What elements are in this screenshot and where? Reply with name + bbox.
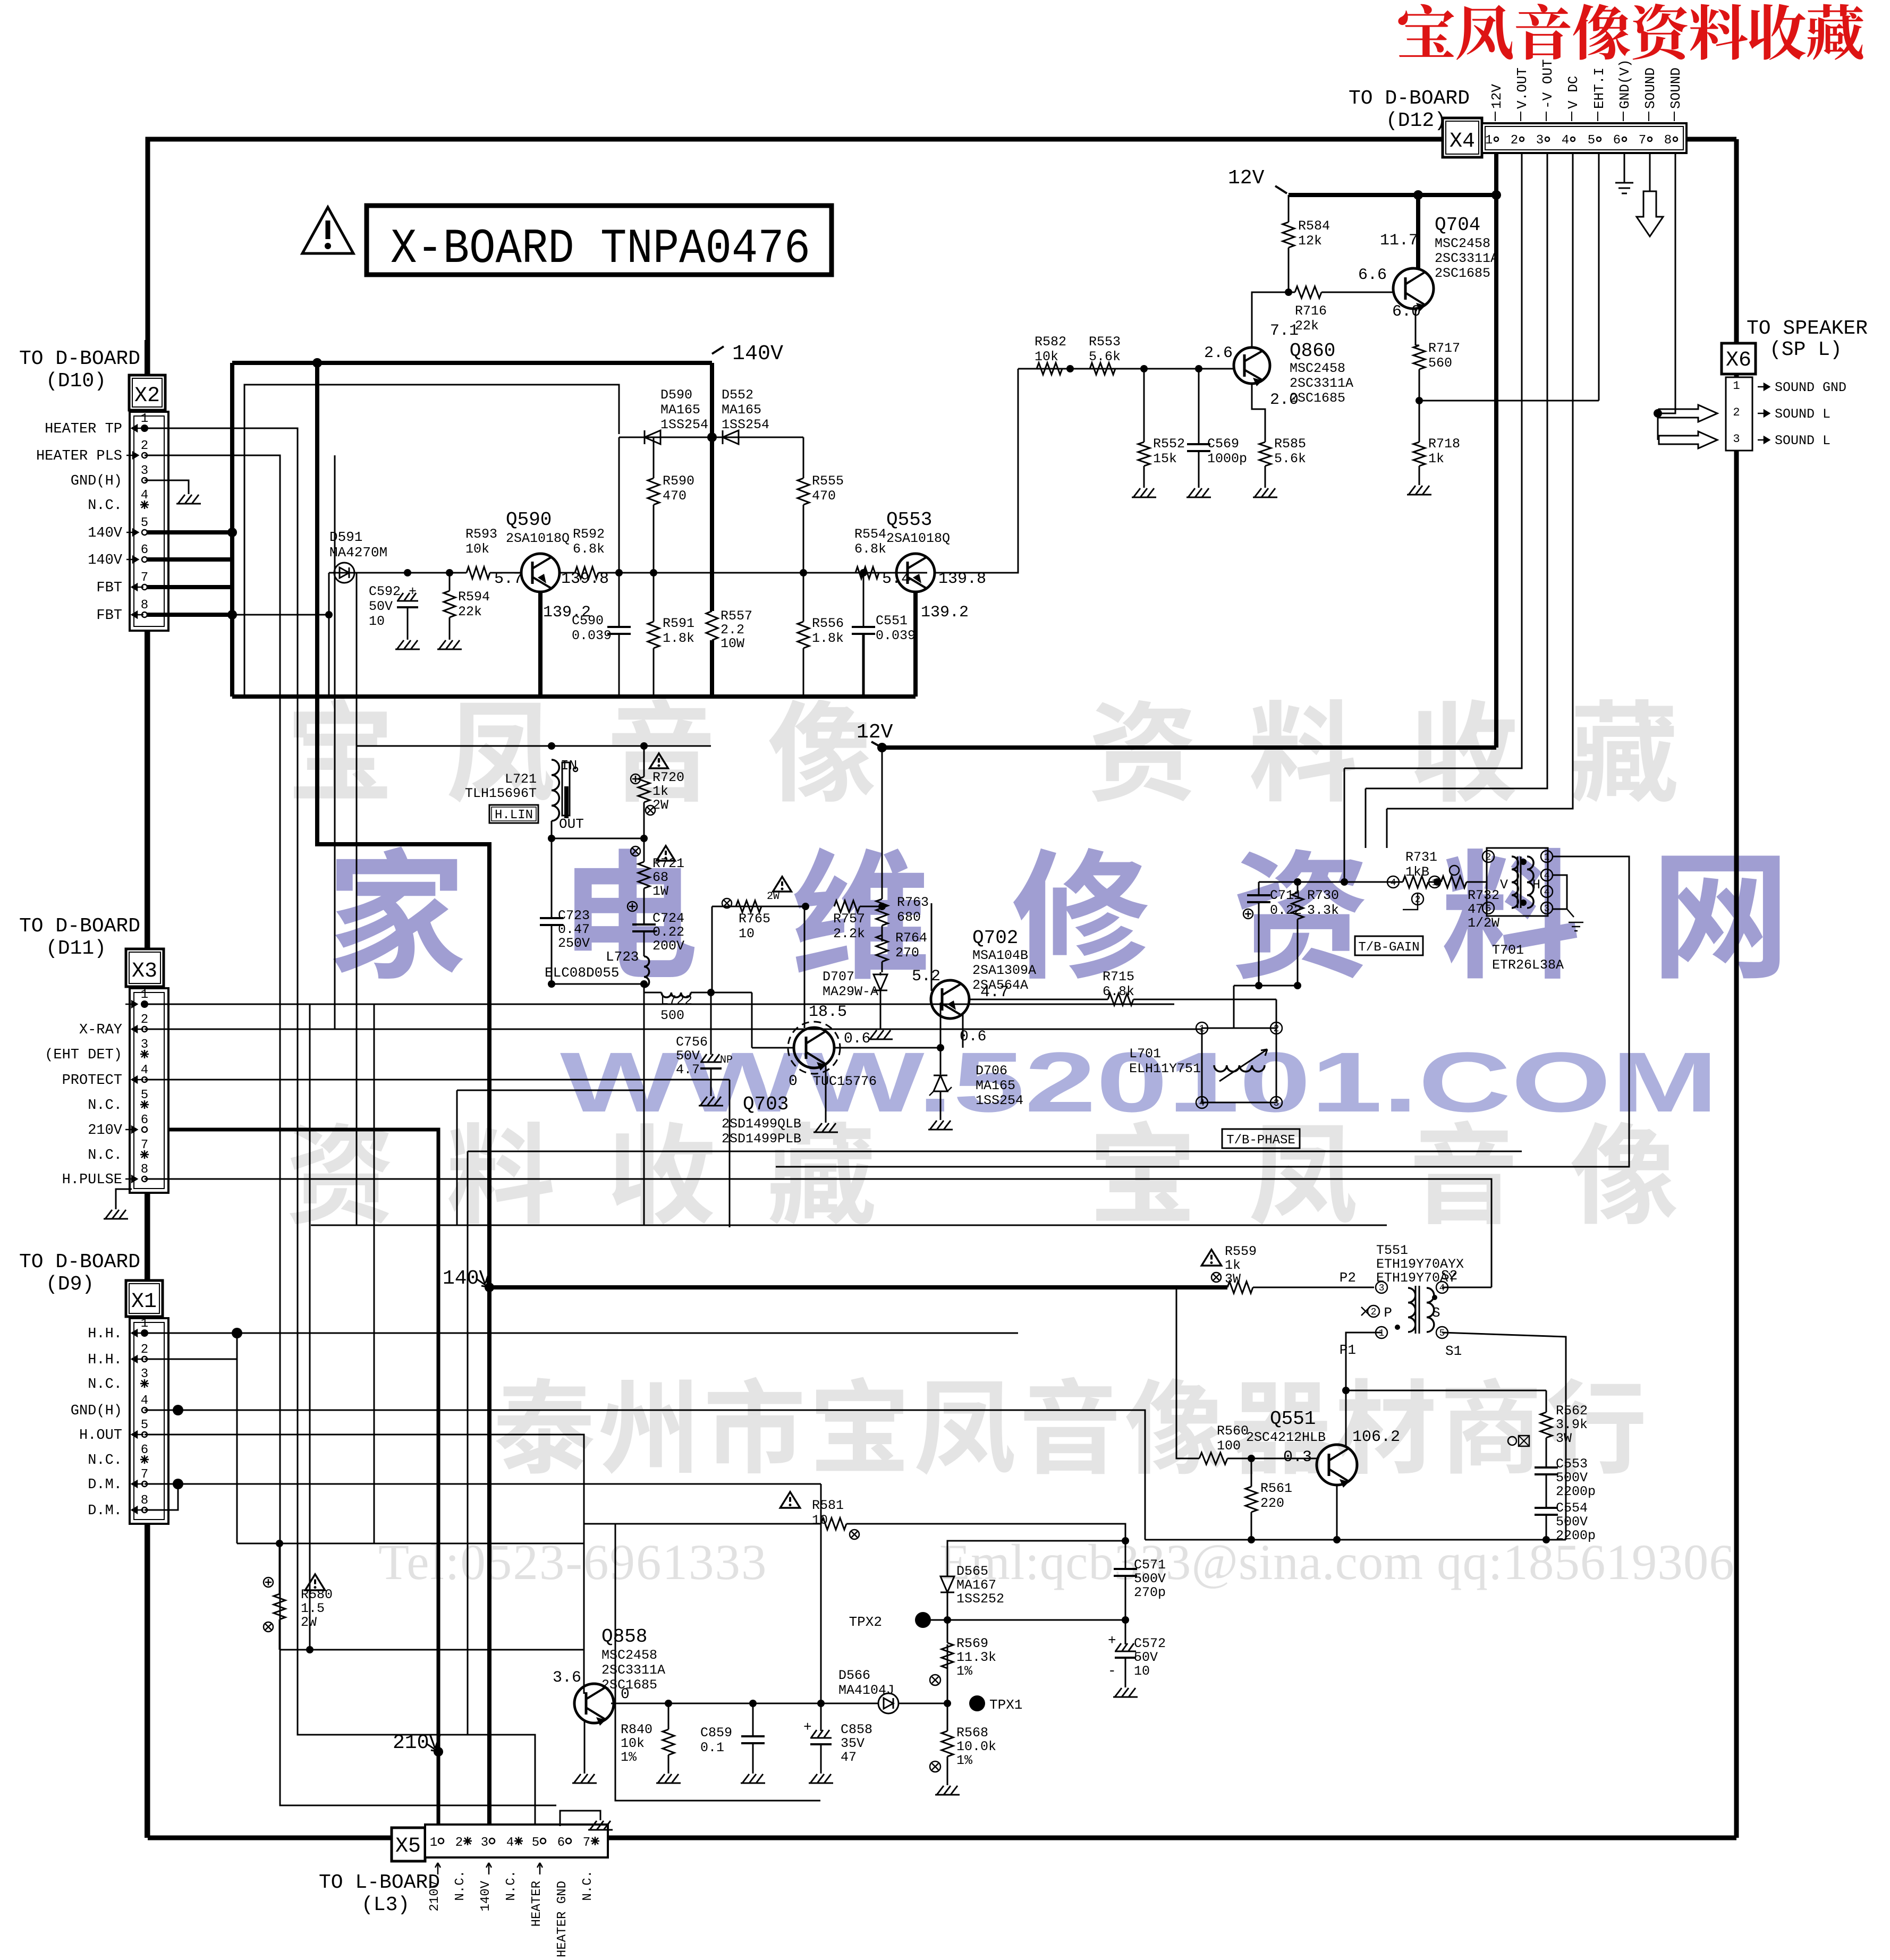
svg-text:C569: C569: [1207, 436, 1239, 452]
wire Q553 collector: [913, 592, 918, 697]
svg-text:D552: D552: [722, 387, 753, 403]
wire X1 pin8 D.M. tie: [145, 1484, 178, 1510]
resistor R560: [1199, 1453, 1227, 1464]
resistor R557 on 140V drop: [710, 363, 714, 611]
svg-text:EHT.I: EHT.I: [1591, 67, 1607, 109]
svg-text:6.6: 6.6: [1358, 266, 1387, 284]
wire Q703 block outline: [457, 1090, 644, 1091]
svg-text:18.5: 18.5: [809, 1003, 847, 1021]
wire 140V drop to lower distribution: [317, 363, 489, 1826]
resistor R591: [653, 573, 655, 622]
svg-text:R594: R594: [458, 589, 490, 605]
wire Q590 collector: [538, 592, 543, 697]
svg-text:0.47: 0.47: [558, 922, 590, 937]
svg-text:D707: D707: [823, 969, 854, 985]
svg-text:NP: NP: [720, 1054, 733, 1066]
transformer T551 secondary: [1427, 1288, 1434, 1332]
wire Q704 emitter: [1415, 309, 1417, 345]
svg-text:SOUND L: SOUND L: [1775, 406, 1830, 422]
svg-text:R582: R582: [1035, 334, 1066, 350]
T551 polarity dots: [1432, 1295, 1437, 1300]
svg-text:47: 47: [1468, 902, 1484, 917]
wire Q703 emitter ground: [825, 1065, 827, 1118]
board outline border: [148, 139, 1736, 529]
svg-text:500V: 500V: [1134, 1571, 1166, 1586]
connector X6 pin labels: [1758, 384, 1769, 390]
wire X2 pin8 FBT: [147, 613, 232, 617]
resistor R585: [1259, 442, 1271, 466]
ground R585: [1265, 466, 1266, 483]
diode D565: [940, 1576, 954, 1592]
wire X1 body to bottom border: [145, 1524, 149, 1838]
svg-text:2.2k: 2.2k: [833, 926, 865, 941]
board outline border left-lower: [146, 529, 150, 1838]
capacitor C551: [863, 573, 865, 627]
resistor R592: [560, 572, 575, 574]
connector X5 body: [425, 1825, 608, 1857]
warning R559: [1201, 1250, 1221, 1266]
ground Q703: [825, 1118, 827, 1123]
svg-text:3.6: 3.6: [553, 1669, 581, 1687]
svg-text:(SP L): (SP L): [1769, 338, 1842, 361]
wire EHT row extension: [1598, 397, 1600, 401]
svg-text:(D10): (D10): [46, 370, 106, 393]
svg-text:R568: R568: [956, 1725, 988, 1741]
connector X6 box: [1722, 343, 1756, 374]
wire X1 pin5 H.OUT: [145, 1435, 584, 1694]
svg-text:S2: S2: [1441, 1268, 1457, 1284]
svg-text:0.039: 0.039: [572, 628, 612, 643]
transformer T551 primary: [1408, 1288, 1416, 1332]
svg-text:R730: R730: [1307, 888, 1339, 903]
svg-text:R591: R591: [663, 616, 694, 631]
svg-text:HEATER TP: HEATER TP: [45, 421, 122, 437]
svg-text:2: 2: [455, 1836, 463, 1850]
title box X-BOARD TNPA0476: [367, 206, 832, 275]
svg-text:0.039: 0.039: [876, 628, 916, 643]
svg-text:8: 8: [1664, 133, 1672, 148]
svg-text:10k: 10k: [621, 1736, 645, 1751]
wire 140V riser from X2: [230, 363, 234, 697]
svg-text:6: 6: [557, 1836, 565, 1850]
warning triangle title: [302, 207, 353, 253]
svg-text:C592 +: C592 +: [369, 584, 417, 599]
wire TPX2 row: [931, 1619, 1125, 1621]
svg-text:2: 2: [141, 1013, 148, 1027]
svg-text:3W: 3W: [1556, 1431, 1572, 1446]
wire X2 body to X3: [145, 631, 149, 949]
svg-text:2: 2: [1371, 1307, 1377, 1318]
svg-text:1%: 1%: [621, 1750, 637, 1765]
wire R763 to node: [882, 926, 883, 941]
node 140V at diode row: [707, 432, 717, 442]
svg-text:R581: R581: [812, 1498, 844, 1513]
svg-text:TO D-BOARD: TO D-BOARD: [19, 915, 140, 938]
capacitor C590: [618, 573, 620, 627]
svg-text:R732: R732: [1468, 888, 1499, 903]
wire Q551 collector: [1345, 1390, 1347, 1447]
transistor Q860: [1234, 347, 1270, 384]
svg-text:11.3k: 11.3k: [956, 1650, 996, 1665]
svg-text:Q860: Q860: [1290, 340, 1335, 362]
svg-text:N.C.: N.C.: [88, 1453, 122, 1469]
svg-text:HEATER PLS: HEATER PLS: [36, 448, 122, 464]
svg-text:R557: R557: [721, 608, 752, 624]
warning R765: [773, 877, 792, 892]
svg-text:4: 4: [141, 1394, 148, 1408]
T551 pin2 unused: [1368, 1305, 1379, 1317]
svg-text:0.6: 0.6: [960, 1029, 986, 1045]
transistor Q704: [1393, 268, 1434, 309]
svg-text:0.1: 0.1: [700, 1740, 724, 1755]
capacitor C711: [1258, 882, 1260, 895]
watermark row5 gray company name: [496, 1378, 594, 1473]
svg-text:270p: 270p: [1134, 1585, 1166, 1600]
svg-text:2SD1499PLB: 2SD1499PLB: [722, 1131, 801, 1147]
svg-text:MA165: MA165: [976, 1078, 1015, 1093]
symbol R580 top: [264, 1577, 273, 1587]
svg-text:Q703: Q703: [743, 1093, 789, 1115]
svg-text:FBT: FBT: [96, 608, 122, 624]
svg-text:R721: R721: [652, 856, 684, 871]
svg-text:7: 7: [141, 1138, 148, 1152]
resistor R582: [1037, 363, 1062, 375]
svg-text:3: 3: [481, 1836, 488, 1850]
svg-text:MSC2458: MSC2458: [601, 1648, 657, 1663]
transistor Q702: [931, 980, 969, 1019]
svg-text:3: 3: [1544, 904, 1550, 914]
wire Q703 base row to D706 node: [834, 1047, 940, 1049]
warning R721: [657, 846, 675, 861]
T701 pin 1: [1541, 851, 1553, 862]
svg-text:-V OUT: -V OUT: [1540, 59, 1556, 109]
resistor R556: [803, 573, 804, 622]
svg-text:Q590: Q590: [506, 509, 552, 531]
svg-text:2: 2: [1733, 406, 1740, 419]
resistor R584: [1288, 195, 1290, 222]
capacitor C859: [752, 1703, 754, 1736]
wire Q551 block bottom bus: [1145, 1539, 1566, 1541]
svg-text:12V: 12V: [1228, 167, 1265, 190]
wire X2 pin2 HEATER PLS: [145, 455, 556, 1805]
svg-text:6: 6: [141, 1443, 148, 1457]
symbol R568: [930, 1761, 940, 1772]
wire 140V to R559: [489, 1285, 1227, 1289]
svg-text:5: 5: [1439, 1328, 1445, 1339]
T551 pin S1: [1436, 1327, 1448, 1338]
resistor R580: [279, 1543, 281, 1594]
svg-text:ELC08D055: ELC08D055: [545, 965, 619, 981]
symbol C711: [1243, 909, 1253, 919]
svg-text:TO D-BOARD: TO D-BOARD: [19, 1251, 140, 1274]
ground R552: [1143, 466, 1145, 483]
node TPX1: [969, 1695, 985, 1711]
svg-text:5.2: 5.2: [912, 968, 940, 986]
diode D590: [645, 430, 660, 444]
connector X6 body: [1726, 377, 1752, 451]
node 140V branch to T551: [485, 1283, 494, 1292]
svg-text:C859: C859: [700, 1725, 732, 1741]
wire R590 lower: [653, 505, 655, 573]
diode D706: [940, 1048, 942, 1074]
svg-text:2200p: 2200p: [1556, 1528, 1596, 1543]
svg-text:15k: 15k: [1153, 451, 1177, 466]
svg-text:P2: P2: [1340, 1270, 1356, 1286]
wire FBT to D591 branch: [232, 614, 329, 616]
svg-text:R840: R840: [621, 1722, 652, 1737]
T701 pin 5: [1482, 902, 1494, 914]
svg-text:D.M.: D.M.: [88, 1503, 122, 1519]
wire long horizontal V.OUT return: [468, 1151, 1522, 1152]
ground X5 heater gnd: [560, 1811, 600, 1826]
wire H.H. drop: [236, 1333, 238, 1543]
svg-text:470: 470: [663, 488, 686, 504]
warning R581: [780, 1492, 800, 1508]
capacitor C554: [1535, 1507, 1558, 1509]
svg-text:8: 8: [141, 1494, 148, 1508]
ground C592: [407, 607, 409, 635]
resistor R552: [1143, 369, 1145, 442]
svg-text:OUT: OUT: [559, 816, 584, 832]
svg-text:200V: 200V: [652, 938, 684, 954]
L701 pins: [1196, 1022, 1208, 1034]
svg-text:140V: 140V: [88, 553, 123, 569]
svg-text:MSC2458: MSC2458: [1435, 236, 1490, 251]
wire X2 pin6 140V: [147, 557, 232, 562]
svg-text:500V: 500V: [1556, 1470, 1588, 1486]
wire R765 row: [712, 906, 806, 907]
wire R717 to R718: [1419, 369, 1420, 442]
wire R757 to R764: [860, 906, 882, 907]
watermark row4 gray: [290, 1123, 391, 1224]
svg-text:2200p: 2200p: [1556, 1484, 1596, 1499]
wire T701 H mid: [1386, 809, 1388, 848]
label H.LIN boxed: [489, 805, 538, 823]
wire X2 pin5 140V: [147, 530, 232, 534]
svg-text:N.C.: N.C.: [88, 1098, 122, 1114]
svg-text:7.1: 7.1: [1270, 322, 1299, 340]
wire top block thin enclosure: [244, 385, 619, 694]
wire Q704 collector: [1416, 195, 1420, 269]
resistor R720: [643, 746, 645, 777]
symbol R581: [850, 1530, 859, 1539]
wire vertical riser c: [374, 1004, 375, 1543]
ground R594: [449, 635, 451, 640]
label T/B-PHASE boxed: [1222, 1129, 1300, 1148]
svg-text:1: 1: [141, 1317, 148, 1331]
connector X4 box: [1443, 118, 1482, 157]
svg-text:4: 4: [1544, 887, 1550, 898]
resistor R594: [449, 573, 451, 591]
svg-text:3.9k: 3.9k: [1556, 1417, 1588, 1432]
wire R716 to Q704 base: [1321, 292, 1393, 293]
wire vertical riser a: [309, 1004, 311, 1650]
wire P1 to Q551 collector: [1346, 1333, 1382, 1390]
wire L701 right up: [1276, 999, 1277, 1028]
symbol C724 top: [628, 902, 637, 911]
svg-text:3: 3: [141, 1367, 148, 1381]
wire X4 pin1 12V drop: [1494, 153, 1498, 195]
ground Q858: [584, 1769, 586, 1774]
wire Q860 emitter: [1252, 384, 1265, 442]
resistor R731: [1403, 876, 1428, 888]
wire T701 H sub box: [1553, 875, 1567, 909]
svg-text:50V: 50V: [1134, 1650, 1158, 1665]
svg-text:T551: T551: [1376, 1243, 1408, 1258]
svg-text:R764: R764: [895, 930, 927, 946]
svg-text:11.7: 11.7: [1380, 232, 1418, 250]
wire R581 row: [584, 1523, 821, 1525]
svg-text:270: 270: [895, 945, 919, 961]
svg-text:R556: R556: [812, 616, 844, 631]
symbol R559: [1211, 1272, 1221, 1282]
resistor R568: [947, 1703, 948, 1731]
resistor R569: [947, 1644, 948, 1703]
diode D552: [723, 430, 739, 444]
svg-text:1SS254: 1SS254: [722, 417, 769, 432]
wire R715 to L701: [1133, 999, 1202, 1000]
svg-text:X5: X5: [395, 1835, 421, 1859]
svg-text:5.6k: 5.6k: [1089, 349, 1121, 364]
svg-text:1: 1: [141, 988, 148, 1002]
svg-text:S1: S1: [1445, 1343, 1462, 1359]
svg-text:1SS252: 1SS252: [956, 1591, 1004, 1607]
svg-text:TO L-BOARD: TO L-BOARD: [319, 1871, 440, 1894]
wire X4 pin7 SOUND arrow: [1649, 153, 1651, 191]
resistor R763: [882, 748, 883, 899]
ground C858: [820, 1745, 822, 1769]
wire S1 loop: [1442, 1333, 1566, 1540]
warning R580: [305, 1574, 325, 1590]
svg-text:10.0k: 10.0k: [956, 1739, 996, 1754]
connector X3 body: [130, 988, 168, 1193]
capacitor C756: [710, 992, 712, 1055]
wire R580 row: [237, 1543, 584, 1545]
svg-text:C571: C571: [1134, 1557, 1166, 1573]
svg-text:500V: 500V: [1556, 1514, 1588, 1530]
svg-text:R552: R552: [1153, 436, 1185, 452]
svg-text:(D12): (D12): [1386, 109, 1446, 132]
node TPX2: [915, 1612, 931, 1628]
wire R559 to T551 P2: [1253, 1287, 1374, 1288]
svg-text:IN: IN: [561, 758, 577, 774]
svg-text:(L3): (L3): [361, 1894, 410, 1916]
svg-text:7: 7: [141, 1467, 148, 1482]
node 140V rail top: [232, 361, 712, 365]
T701 pin 2: [1482, 851, 1494, 862]
svg-text:L721: L721: [505, 771, 537, 787]
capacitor C569: [1198, 369, 1200, 444]
svg-text:SOUND: SOUND: [1642, 67, 1658, 109]
svg-text:250V: 250V: [558, 936, 590, 951]
svg-text:TPX1: TPX1: [989, 1697, 1022, 1713]
wire L-block left edge: [356, 573, 358, 1225]
svg-text:10k: 10k: [465, 541, 489, 557]
wire row2 to Q553: [712, 572, 927, 574]
svg-text:2: 2: [1415, 895, 1421, 905]
svg-text:R716: R716: [1295, 303, 1327, 319]
svg-text:GND(V): GND(V): [1617, 59, 1633, 109]
svg-text:1W: 1W: [652, 884, 668, 899]
svg-text:2SC4212HLB: 2SC4212HLB: [1246, 1430, 1326, 1445]
svg-text:5: 5: [1588, 133, 1595, 148]
svg-text:MSA104B: MSA104B: [972, 948, 1028, 963]
wire collector node row: [1346, 1390, 1546, 1391]
svg-text:R763: R763: [897, 895, 929, 910]
svg-text:1: 1: [1733, 379, 1740, 393]
svg-text:47: 47: [841, 1750, 857, 1765]
wire T701 H side: [1365, 788, 1367, 848]
svg-text:GND(H): GND(H): [71, 1403, 122, 1419]
symbol R569: [930, 1675, 940, 1685]
svg-text:1k: 1k: [652, 784, 668, 799]
wire base link Q703: [804, 906, 806, 1028]
ground X2 pin3: [188, 490, 190, 494]
svg-text:1: 1: [1379, 1328, 1385, 1339]
svg-text:3: 3: [1379, 1283, 1385, 1294]
capacitor C553: [1535, 1466, 1558, 1469]
svg-text:+: +: [803, 1719, 812, 1735]
wire TB top rail: [1259, 881, 1403, 883]
T551 pin P1: [1376, 1327, 1387, 1338]
svg-text:1.5: 1.5: [301, 1601, 325, 1616]
svg-text:2SC1685: 2SC1685: [1435, 266, 1490, 281]
svg-text:100: 100: [1217, 1438, 1241, 1454]
svg-text:5.6k: 5.6k: [1274, 451, 1306, 466]
symbol R720 left: [631, 774, 640, 784]
svg-text:HEATER: HEATER: [530, 1881, 544, 1927]
svg-text:H: H: [1532, 877, 1540, 893]
svg-text:2: 2: [1511, 133, 1518, 148]
svg-text:R584: R584: [1298, 218, 1330, 234]
wire 140V branch to R560: [1176, 1287, 1199, 1458]
wire Q858 collector row: [611, 1703, 878, 1704]
wire Q702 collector: [962, 1015, 964, 1048]
svg-text:3: 3: [141, 1038, 148, 1052]
connector X5 pin arrows: [435, 1863, 440, 1874]
svg-text:C858: C858: [841, 1722, 872, 1737]
svg-text:4: 4: [1562, 133, 1569, 148]
wire L701 to TB rail: [1233, 986, 1235, 1028]
wire Q551 emitter: [1336, 1485, 1338, 1540]
svg-text:Q858: Q858: [601, 1626, 647, 1648]
resistor R718: [1413, 442, 1425, 466]
node R555 row2: [800, 569, 807, 576]
wire long horizontal V DC return: [311, 1225, 1387, 1226]
svg-text:4: 4: [1544, 871, 1550, 881]
inductor L723: [644, 956, 649, 987]
wire D591 row: [329, 572, 467, 574]
svg-text:0.3: 0.3: [1283, 1448, 1312, 1466]
diode D566: [878, 1693, 899, 1713]
wire Q858 emitter: [584, 1720, 586, 1769]
svg-text:C551: C551: [876, 613, 908, 629]
warning R720: [650, 753, 668, 768]
svg-text:3: 3: [1536, 133, 1544, 148]
T551 pin S2: [1436, 1282, 1448, 1293]
resistor R730: [1297, 882, 1299, 893]
svg-text:V: V: [1500, 877, 1508, 893]
svg-text:L722: L722: [660, 993, 692, 1008]
svg-text:22k: 22k: [458, 604, 482, 620]
resistor R765: [736, 901, 761, 912]
svg-text:X2: X2: [134, 384, 160, 408]
capacitor C858: [820, 1703, 822, 1731]
svg-text:N.C.: N.C.: [88, 1148, 122, 1164]
svg-text:7: 7: [1639, 133, 1646, 148]
svg-text:SOUND GND: SOUND GND: [1775, 380, 1846, 395]
wire Q703 collector riser: [804, 992, 806, 1028]
